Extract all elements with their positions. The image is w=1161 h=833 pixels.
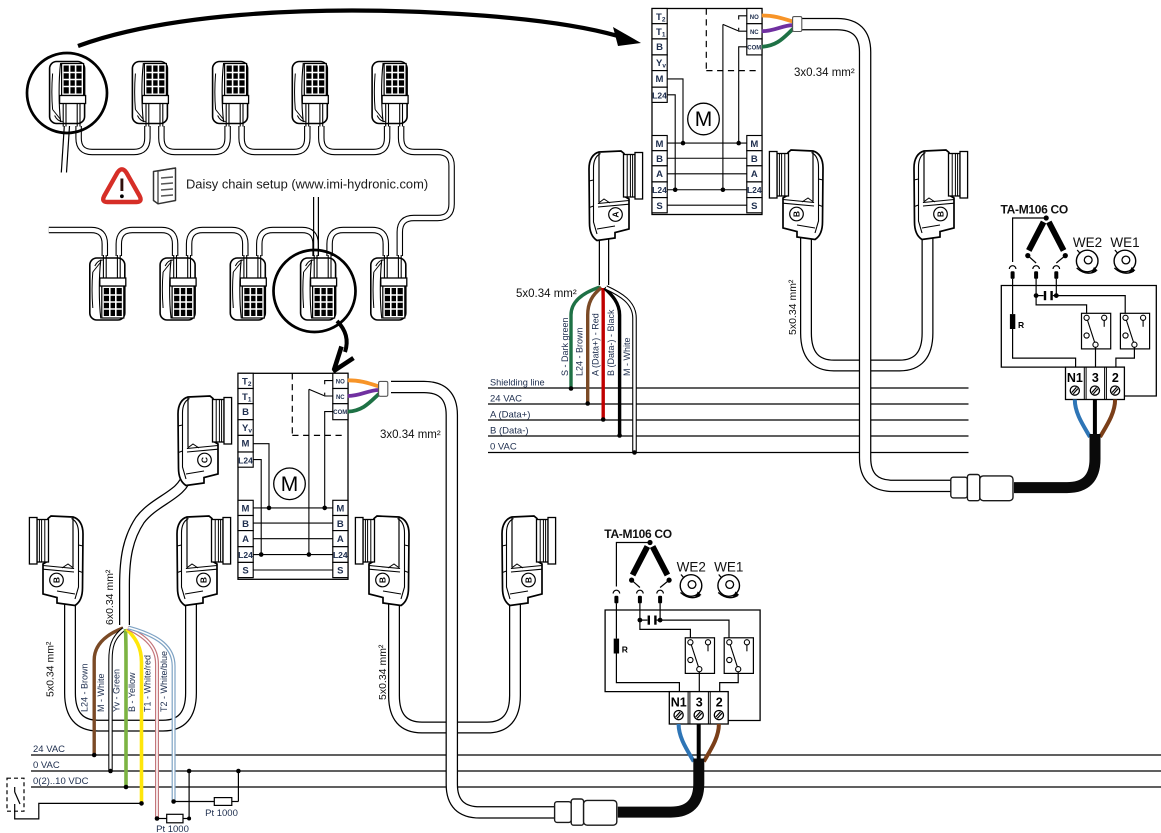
- svg-text:M: M: [750, 139, 758, 150]
- svg-text:L24: L24: [747, 185, 762, 195]
- svg-text:0(2)..10 VDC: 0(2)..10 VDC: [33, 776, 89, 787]
- svg-text:5x0.34 mm²: 5x0.34 mm²: [516, 288, 577, 300]
- svg-text:24 VAC: 24 VAC: [490, 394, 522, 405]
- svg-text:Shielding line: Shielding line: [490, 378, 545, 388]
- svg-text:L24: L24: [652, 91, 667, 101]
- svg-text:B: B: [199, 577, 209, 583]
- svg-text:5x0.34 mm²: 5x0.34 mm²: [787, 279, 799, 335]
- svg-text:S - Dark green: S - Dark green: [560, 317, 570, 376]
- svg-text:B: B: [656, 42, 663, 53]
- svg-text:A: A: [751, 169, 758, 180]
- svg-text:B: B: [656, 154, 663, 165]
- svg-text:M: M: [695, 108, 713, 131]
- svg-text:TA-M106 CO: TA-M106 CO: [1001, 203, 1068, 217]
- svg-text:COM: COM: [747, 45, 761, 51]
- svg-text:Pt 1000: Pt 1000: [205, 808, 238, 819]
- svg-text:5x0.34 mm²: 5x0.34 mm²: [45, 641, 57, 697]
- svg-text:B: B: [378, 577, 388, 583]
- svg-text:T2 - White/blue: T2 - White/blue: [159, 651, 169, 712]
- svg-text:NC: NC: [750, 30, 759, 36]
- svg-text:C: C: [200, 457, 210, 463]
- svg-text:T1 - White/red: T1 - White/red: [143, 655, 153, 712]
- svg-text:L24 - Brown: L24 - Brown: [80, 663, 90, 712]
- svg-text:Daisy chain setup (www.imi-hyd: Daisy chain setup (www.imi-hydronic.com): [186, 177, 428, 192]
- svg-text:A (Data+) - Red: A (Data+) - Red: [591, 313, 601, 376]
- svg-text:L24 - Brown: L24 - Brown: [575, 327, 585, 376]
- svg-text:B (Data-) - Black: B (Data-) - Black: [606, 309, 616, 376]
- svg-text:NO: NO: [750, 15, 759, 21]
- svg-text:L24: L24: [652, 185, 667, 195]
- svg-text:24 VAC: 24 VAC: [33, 744, 65, 755]
- svg-text:5x0.34 mm²: 5x0.34 mm²: [377, 644, 389, 700]
- svg-text:M - White: M - White: [96, 673, 106, 712]
- svg-text:B: B: [792, 211, 802, 217]
- svg-text:A: A: [656, 169, 663, 180]
- svg-text:B: B: [936, 211, 946, 217]
- svg-text:S: S: [751, 201, 757, 212]
- svg-text:WE1: WE1: [1110, 235, 1139, 250]
- svg-text:A: A: [611, 211, 621, 217]
- svg-text:0 VAC: 0 VAC: [33, 760, 60, 771]
- svg-text:R: R: [1018, 320, 1024, 330]
- svg-text:0 VAC: 0 VAC: [490, 442, 517, 453]
- svg-text:M - White: M - White: [622, 337, 632, 376]
- svg-text:B: B: [52, 577, 62, 583]
- svg-text:B (Data-): B (Data-): [490, 426, 529, 437]
- svg-text:B - Yellow: B - Yellow: [127, 672, 137, 712]
- svg-text:Yv - Green: Yv - Green: [112, 669, 122, 712]
- svg-text:3x0.34 mm²: 3x0.34 mm²: [794, 67, 855, 79]
- svg-text:Pt 1000: Pt 1000: [156, 824, 189, 833]
- svg-text:3x0.34 mm²: 3x0.34 mm²: [380, 429, 441, 441]
- svg-text:N1: N1: [1067, 371, 1083, 385]
- svg-text:A (Data+): A (Data+): [490, 410, 530, 421]
- svg-text:S: S: [656, 201, 662, 212]
- svg-text:2: 2: [1112, 371, 1119, 385]
- svg-text:M: M: [656, 74, 664, 85]
- svg-text:B: B: [751, 154, 758, 165]
- svg-text:3: 3: [1092, 371, 1099, 385]
- svg-text:M: M: [656, 139, 664, 150]
- svg-text:WE2: WE2: [1073, 235, 1102, 250]
- svg-text:6x0.34 mm²: 6x0.34 mm²: [104, 569, 116, 625]
- svg-text:B: B: [524, 577, 534, 583]
